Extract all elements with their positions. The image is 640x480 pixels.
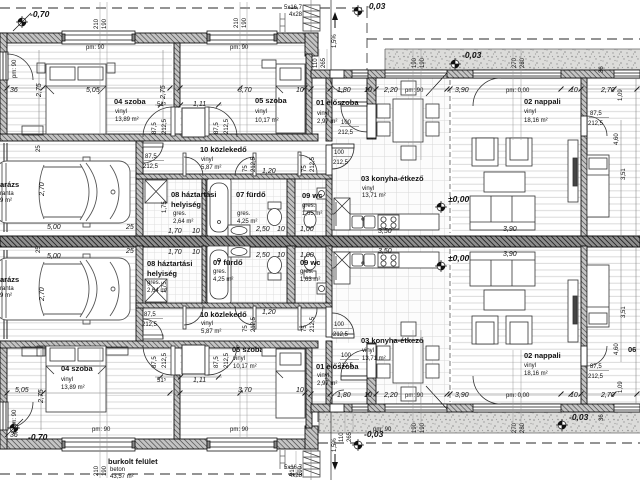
door dim line rooms bottom — [155, 376, 222, 378]
svg-text:pm: 90: pm: 90 — [230, 427, 249, 433]
svg-text:vinyl: vinyl — [362, 186, 374, 192]
svg-text:212,5: 212,5 — [224, 118, 230, 134]
svg-text:3,90: 3,90 — [503, 251, 517, 258]
svg-text:1,5%: 1,5% — [332, 34, 338, 48]
living-unitC door top gap — [581, 116, 587, 136]
svg-text:3,51: 3,51 — [621, 306, 627, 318]
wall eloszoba/kitchen bottom — [367, 343, 376, 404]
vanity bathroom07 bottom — [228, 246, 250, 257]
svg-text:vinyl: vinyl — [524, 363, 536, 369]
eloszoba window bottom — [352, 404, 368, 412]
door wc09 bottom leaf — [298, 306, 301, 330]
svg-text:vinyl: vinyl — [115, 109, 127, 115]
floor unit C bedroom bottom — [587, 246, 640, 404]
wall 07/09 — [287, 179, 295, 236]
chairs east — [426, 104, 439, 118]
corridor-kitchen door top arc — [332, 147, 354, 169]
svg-text:25: 25 — [125, 224, 134, 231]
floor room 05 bottom — [180, 346, 306, 439]
floor corridor 10 — [143, 141, 331, 179]
nightstand right room04 bottom — [106, 347, 128, 355]
svg-text:gres.: gres. — [300, 269, 314, 275]
svg-text:1,75: 1,75 — [162, 281, 168, 293]
svg-text:36: 36 — [10, 87, 18, 94]
svg-text:ranta: ranta — [0, 286, 14, 292]
svg-text:01 előszoba: 01 előszoba — [316, 98, 359, 107]
svg-text:10: 10 — [364, 87, 372, 94]
walkway edge top — [330, 0, 332, 70]
corridor south wall bottom — [136, 303, 332, 308]
svg-text:3,50: 3,50 — [378, 248, 392, 255]
corner wall right of room 05 — [305, 33, 318, 56]
door wc09 top leaf — [298, 152, 301, 176]
floor wc 09 bottom — [295, 246, 326, 303]
svg-text:1,11: 1,11 — [193, 101, 206, 108]
window jamb dim lines — [100, 2, 521, 478]
left exterior wall bottom — [0, 341, 7, 449]
svg-text:4,25 m²: 4,25 m² — [237, 219, 257, 225]
eloszoba-kitchen door top arc — [341, 106, 367, 132]
corridor-kitchen door bottom arc — [332, 313, 354, 335]
eloszoba entry door top — [330, 70, 344, 78]
svg-text:87,5: 87,5 — [590, 364, 602, 370]
svg-text:1,00: 1,00 — [300, 252, 314, 259]
floor living 02 bottom — [452, 246, 581, 404]
svg-text:gres.: gres. — [213, 269, 227, 275]
svg-text:9 m²: 9 m² — [0, 293, 12, 299]
svg-text:03 konyha-étkező: 03 konyha-étkező — [361, 174, 424, 183]
svg-text:212,5: 212,5 — [143, 164, 159, 170]
nightstand room05 bottom — [262, 348, 276, 356]
svg-text:2,97 m²: 2,97 m² — [317, 381, 337, 387]
wall between rooms 04 and 05 bottom — [174, 375, 180, 439]
chairs east bottom — [426, 346, 439, 360]
svg-text:-0,03: -0,03 — [569, 412, 589, 422]
svg-text:13,89 m²: 13,89 m² — [61, 385, 85, 391]
svg-text:06: 06 — [628, 345, 636, 354]
eloszoba west / wc east wall bottom — [326, 341, 332, 410]
tv bench living bottom — [568, 280, 578, 342]
svg-text:212,5: 212,5 — [224, 352, 230, 368]
svg-text:212,5: 212,5 — [162, 352, 168, 368]
svg-text:1,63 m²: 1,63 m² — [300, 277, 320, 283]
svg-text:212,5: 212,5 — [588, 374, 604, 380]
garage door bottom arc — [143, 319, 163, 339]
svg-text:vinyl: vinyl — [524, 109, 536, 115]
property line step vertical bottom — [317, 412, 319, 474]
kitchen sink bottom — [352, 254, 375, 266]
svg-text:5,05: 5,05 — [15, 387, 29, 394]
door wc09 bottom arc — [299, 308, 317, 327]
svg-text:vinyl: vinyl — [255, 109, 267, 115]
eloszoba-kitchen door bottom gap — [367, 344, 376, 378]
left wall window room04 bottom — [0, 402, 8, 430]
left exterior wall — [0, 33, 7, 141]
right edge chain lines — [621, 78, 636, 404]
chairs west — [377, 104, 390, 118]
nightstand left room04 bottom — [37, 346, 45, 356]
level marker -0,70 bottom left — [5, 419, 23, 437]
svg-text:5,00: 5,00 — [47, 224, 61, 231]
kitchen window top — [385, 70, 447, 96]
svg-text:arázs: arázs — [0, 275, 19, 284]
svg-text:vinyl: vinyl — [201, 321, 213, 327]
svg-text:2,70: 2,70 — [39, 287, 46, 302]
svg-text:04 szoba: 04 szoba — [61, 364, 94, 373]
svg-text:5,00: 5,00 — [47, 253, 61, 260]
svg-text:2,50: 2,50 — [255, 226, 270, 233]
sofa living bottom — [470, 252, 535, 286]
svg-text:vinyl: vinyl — [233, 356, 245, 362]
garage door line top — [3, 143, 5, 232]
svg-text:87,5: 87,5 — [144, 312, 156, 318]
coffee table living top — [484, 172, 525, 192]
svg-text:08 háztartási: 08 háztartási — [171, 190, 216, 199]
svg-text:212,5: 212,5 — [333, 160, 349, 166]
living east wall bottom — [581, 246, 587, 404]
svg-text:87,5: 87,5 — [152, 356, 158, 368]
svg-text:gres.: gres. — [302, 203, 316, 209]
door room05 top arc — [207, 107, 237, 137]
south wall bedrooms / garage north band — [0, 134, 318, 141]
svg-text:helyiség: helyiség — [147, 269, 177, 278]
svg-text:2,50: 2,50 — [255, 252, 270, 259]
kitchen counter bottom unit — [332, 252, 439, 268]
entry steps top — [303, 5, 320, 31]
svg-text:gres.: gres. — [173, 211, 187, 217]
svg-text:vinyl: vinyl — [201, 157, 213, 163]
north wall bedrooms bottom / garage south band — [0, 341, 318, 348]
door room08 top leaf — [183, 153, 186, 176]
svg-text:10: 10 — [570, 87, 578, 94]
svg-text:5x16,7: 5x16,7 — [284, 465, 303, 471]
gravel strip top right — [385, 49, 640, 70]
wall room05 east — [306, 54, 312, 137]
slope arrow 1,5% top — [332, 12, 338, 28]
svg-text:1,5%: 1,5% — [332, 438, 338, 452]
dim chain right block top — [311, 88, 640, 90]
svg-text:2,75: 2,75 — [160, 85, 167, 100]
svg-text:pm: 90: pm: 90 — [12, 409, 18, 428]
svg-text:3,90: 3,90 — [455, 392, 469, 399]
handbasin wc09 top — [317, 188, 326, 199]
bed unit C bottom — [587, 265, 609, 327]
window W2 room05 top — [207, 31, 277, 44]
sofa living top — [470, 196, 535, 230]
nightstand right room04 top — [107, 63, 115, 73]
armchair 1 living top — [472, 138, 498, 166]
svg-text:265: 265 — [347, 431, 353, 442]
svg-text:75: 75 — [243, 165, 249, 172]
eloszoba-kitchen door top leaf — [341, 102, 367, 106]
svg-text:210: 210 — [234, 17, 240, 28]
svg-text:9 m²: 9 m² — [0, 198, 12, 204]
bed room04 bottom — [46, 346, 106, 412]
svg-text:1,70: 1,70 — [168, 249, 182, 256]
eloszoba-kitchen door bottom leaf — [341, 376, 367, 380]
window swing arc room04 left top — [7, 54, 33, 80]
nightstand room05 top — [262, 60, 276, 68]
corridor south wall — [136, 174, 332, 179]
svg-text:212,5: 212,5 — [162, 118, 168, 134]
property line step vertical — [366, 8, 368, 70]
door room04 bottom arc — [143, 345, 173, 375]
dim ticks bottom chains — [5, 391, 640, 397]
svg-text:07 fürdő: 07 fürdő — [236, 190, 266, 199]
corner wall right of room 05 bottom — [305, 426, 318, 449]
floor kitchen 03 — [331, 78, 450, 236]
svg-text:36: 36 — [599, 414, 605, 421]
svg-text:-0,03: -0,03 — [366, 1, 386, 11]
dresser room04 top — [22, 126, 43, 135]
svg-text:03 konyha-étkező: 03 konyha-étkező — [361, 336, 424, 345]
svg-text:110: 110 — [313, 58, 319, 68]
svg-text:212,5: 212,5 — [310, 156, 316, 172]
level marker -0,03 bottom mid — [352, 439, 364, 451]
corridor-kitchen door bottom gap — [326, 307, 332, 337]
bed unit C top — [587, 155, 609, 217]
svg-text:pm: 90: pm: 90 — [92, 427, 111, 433]
svg-text:1,65 m²: 1,65 m² — [302, 211, 322, 217]
svg-text:1,20: 1,20 — [262, 168, 276, 175]
svg-text:210: 210 — [94, 18, 100, 29]
slope arrow 1,5% bottom — [332, 454, 338, 470]
bathtub top — [207, 179, 231, 236]
toilet wc09 top — [304, 204, 316, 228]
bed room04 top — [46, 64, 106, 134]
left wall window room04 top — [0, 52, 8, 80]
svg-text:05 szoba: 05 szoba — [255, 96, 288, 105]
entrance door arc top — [330, 78, 344, 92]
level marker -0,70 top left — [13, 13, 31, 31]
svg-text:13,71 m²: 13,71 m² — [362, 356, 386, 362]
floor garage top — [0, 141, 136, 236]
floor eloszoba 01 — [310, 78, 367, 139]
svg-text:210: 210 — [94, 465, 100, 476]
garage east wall bottom — [136, 246, 143, 341]
door dim line rooms top — [155, 104, 222, 106]
svg-text:75: 75 — [302, 165, 308, 172]
svg-text:02 nappali: 02 nappali — [524, 351, 561, 360]
paved walkway dashed property line top — [0, 7, 367, 9]
svg-text:gres.: gres. — [237, 211, 251, 217]
bottom exterior wall right block — [311, 404, 640, 412]
svg-text:10: 10 — [364, 392, 372, 399]
kitchen tall unit bottom — [334, 252, 350, 284]
floor room 08 — [143, 179, 202, 236]
terrace door window top — [473, 70, 561, 78]
living-unitC door bottom arc — [587, 346, 607, 366]
svg-text:ranta: ranta — [0, 191, 14, 197]
svg-text:1,80: 1,80 — [337, 87, 351, 94]
svg-text:-0,70: -0,70 — [30, 9, 50, 19]
svg-text:09 wc: 09 wc — [300, 258, 320, 267]
svg-text:10,17 m²: 10,17 m² — [233, 364, 257, 370]
property line top right — [367, 38, 640, 40]
svg-text:2,70: 2,70 — [39, 182, 46, 197]
svg-text:212,5: 212,5 — [333, 332, 349, 338]
terrace door window bottom — [473, 404, 561, 412]
eloszoba-kitchen door bottom arc — [341, 350, 367, 376]
svg-text:265: 265 — [321, 57, 327, 68]
ramp rail top — [280, 13, 285, 32]
window W2 room05 bottom — [207, 438, 277, 451]
chair north — [401, 81, 416, 95]
svg-text:5,87 m²: 5,87 m² — [201, 329, 221, 335]
wardrobe room05 bottom — [182, 345, 205, 374]
washing machine room08 top — [145, 180, 167, 203]
terrace door arc bottom — [473, 376, 501, 404]
dining table top unit — [393, 99, 423, 142]
window W1 room04 bottom — [62, 438, 135, 451]
svg-text:25: 25 — [36, 145, 42, 152]
svg-text:10: 10 — [296, 387, 304, 394]
ramp rail bottom — [280, 450, 285, 469]
dim ticks top chains — [5, 86, 640, 92]
garage east wall — [136, 141, 143, 236]
wall eloszoba/kitchen — [367, 78, 376, 139]
svg-text:5,87 m²: 5,87 m² — [201, 165, 221, 171]
level marker +0,00 top unit — [435, 201, 447, 213]
svg-text:100: 100 — [334, 322, 345, 328]
gravel strip bottom right — [319, 412, 640, 433]
svg-text:2,97 m²: 2,97 m² — [317, 119, 337, 125]
svg-text:100: 100 — [341, 120, 352, 126]
door room04 bottom leaf — [171, 346, 175, 375]
kitchen counter top unit — [332, 214, 439, 230]
chair north bottom — [401, 322, 416, 336]
door post stub bottom — [182, 345, 205, 374]
svg-text:1,00: 1,00 — [300, 226, 314, 233]
svg-text:10: 10 — [277, 252, 285, 259]
garage door top leaf — [143, 143, 163, 147]
svg-text:02 nappali: 02 nappali — [524, 97, 561, 106]
dim chain right block bottom — [311, 393, 640, 395]
unit C window top — [614, 70, 640, 78]
svg-text:1,70: 1,70 — [168, 228, 182, 235]
nightstand left room04 top — [37, 63, 45, 73]
cooktop — [378, 215, 399, 229]
svg-text:43,57 m²: 43,57 m² — [110, 474, 134, 480]
kitchen sink — [352, 216, 375, 228]
toilet bathroom07 top — [268, 202, 282, 226]
window W1 room04 top — [62, 31, 135, 44]
wall 07/09 bottom — [287, 246, 295, 303]
dim chain rooms top — [7, 50, 305, 134]
tv bench living top — [568, 140, 578, 202]
svg-text:vinyl: vinyl — [362, 348, 374, 354]
svg-text:arázs: arázs — [0, 180, 19, 189]
svg-text:5,05: 5,05 — [86, 87, 100, 94]
svg-text:05 szoba: 05 szoba — [232, 345, 265, 354]
svg-text:2,75: 2,75 — [36, 83, 43, 98]
kitchen window bottom — [385, 386, 447, 412]
svg-text:10: 10 — [570, 392, 578, 399]
living east wall — [581, 78, 587, 236]
garage door line bottom — [3, 250, 5, 339]
floor bathroom 07 — [206, 179, 287, 236]
svg-text:-0,70: -0,70 — [28, 432, 48, 442]
level marker +0,00 bottom unit — [435, 260, 447, 272]
living-unitC door top arc — [587, 116, 607, 136]
svg-text:04 szoba: 04 szoba — [114, 97, 147, 106]
svg-text:burkolt felület: burkolt felület — [108, 457, 158, 466]
door post stub between room doors — [182, 108, 205, 137]
property line bottom left — [0, 473, 318, 475]
svg-text:13,89 m²: 13,89 m² — [115, 117, 139, 123]
svg-text:3,50: 3,50 — [378, 228, 392, 235]
svg-text:13,71 m²: 13,71 m² — [362, 193, 386, 199]
floor bathroom 07 bottom — [206, 246, 287, 303]
svg-text:pm: 90: pm: 90 — [12, 59, 18, 78]
car in garage bottom — [0, 254, 130, 324]
svg-text:helyiség: helyiség — [171, 200, 201, 209]
svg-text:beton: beton — [110, 467, 125, 473]
svg-text:1,09: 1,09 — [618, 89, 624, 101]
svg-text:4,60: 4,60 — [614, 343, 620, 355]
svg-text:1,20: 1,20 — [262, 309, 276, 316]
svg-text:87,5: 87,5 — [214, 356, 220, 368]
svg-text:100: 100 — [341, 353, 352, 359]
svg-text:1,80: 1,80 — [337, 392, 351, 399]
dresser room04 bottom — [22, 347, 43, 356]
svg-text:212,5: 212,5 — [142, 322, 158, 328]
floor garage bottom — [0, 246, 136, 341]
svg-text:212,5: 212,5 — [588, 121, 604, 127]
svg-text:25: 25 — [36, 246, 42, 253]
coffee table living bottom — [484, 290, 525, 310]
svg-text:18,16 m²: 18,16 m² — [524, 118, 548, 124]
bed room05 top — [276, 64, 305, 133]
svg-text:2,64 m²: 2,64 m² — [173, 219, 193, 225]
svg-text:vinyl: vinyl — [61, 377, 73, 383]
corridor-kitchen door top leaf — [332, 144, 354, 148]
door room08 bottom leaf — [183, 306, 186, 329]
floor living 02 — [452, 78, 581, 236]
svg-text:2,20: 2,20 — [383, 87, 398, 94]
svg-text:pm: 90: pm: 90 — [230, 45, 249, 51]
door bath07 bottom leaf — [253, 306, 256, 329]
svg-text:212,5: 212,5 — [251, 156, 257, 172]
svg-text:10,17 m²: 10,17 m² — [255, 118, 279, 124]
chair south — [401, 146, 416, 160]
eloszoba window top — [352, 70, 368, 78]
svg-text:pm: 90: pm: 90 — [86, 45, 105, 51]
svg-text:3,90: 3,90 — [503, 226, 517, 233]
party wall center — [0, 236, 640, 247]
top exterior wall bedroom block — [0, 33, 318, 43]
svg-text:100: 100 — [334, 150, 345, 156]
eloszoba-kitchen door top gap — [367, 104, 376, 138]
svg-text:18,16 m²: 18,16 m² — [524, 371, 548, 377]
svg-text:07 fürdő: 07 fürdő — [213, 258, 243, 267]
dining table bottom unit — [393, 340, 423, 383]
svg-text:pm: 0,00: pm: 0,00 — [506, 393, 530, 399]
svg-text:±0,00: ±0,00 — [448, 194, 469, 204]
svg-text:08 háztartási: 08 háztartási — [147, 259, 192, 268]
svg-text:212,5: 212,5 — [251, 316, 257, 332]
terrace door arc top — [473, 78, 501, 106]
svg-text:87,5: 87,5 — [590, 111, 602, 117]
door room04 top leaf — [171, 107, 175, 136]
toilet wc09 bottom — [304, 254, 316, 278]
entry steps bottom — [303, 451, 320, 477]
svg-text:87,5: 87,5 — [214, 122, 220, 134]
floor unit C bedroom top — [587, 78, 640, 236]
svg-text:4x28: 4x28 — [289, 12, 303, 18]
svg-text:vinyl: vinyl — [317, 373, 329, 379]
corridor-kitchen door bottom leaf — [332, 334, 354, 338]
